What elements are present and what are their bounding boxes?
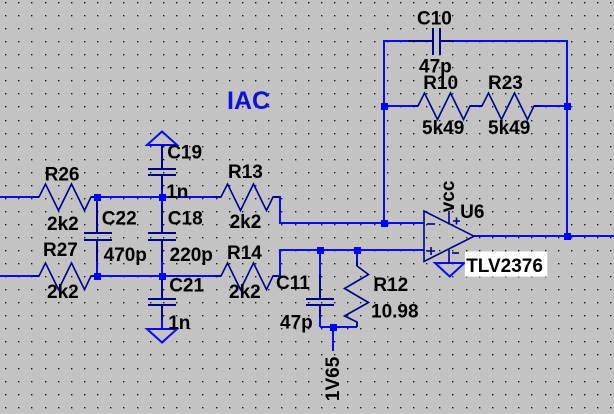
svg-text:C18: C18 [168,208,203,229]
svg-text:470p: 470p [104,245,147,266]
svg-text:IAC: IAC [227,87,270,115]
svg-text:10.98: 10.98 [371,302,419,323]
svg-text:R14: R14 [227,243,262,264]
svg-text:1n: 1n [166,182,188,203]
svg-text:2k2: 2k2 [47,282,79,303]
svg-text:5k49: 5k49 [422,118,464,139]
svg-text:C10: C10 [417,8,452,29]
svg-text:C22: C22 [102,208,137,229]
svg-text:TLV2376: TLV2376 [466,256,543,277]
svg-text:2k2: 2k2 [230,212,262,233]
svg-text:U6: U6 [460,202,484,223]
svg-text:C19: C19 [167,143,202,164]
svg-text:C11: C11 [276,273,310,294]
svg-text:R23: R23 [488,73,523,94]
svg-text:1V65: 1V65 [323,356,344,401]
svg-text:R13: R13 [228,162,263,183]
svg-text:R26: R26 [45,164,80,185]
svg-text:2k2: 2k2 [47,214,79,235]
svg-text:R10: R10 [423,73,458,94]
svg-text:R27: R27 [43,240,78,261]
svg-text:C21: C21 [169,276,204,297]
svg-text:5k49: 5k49 [488,118,530,139]
svg-text:R12: R12 [373,275,408,296]
svg-text:47p: 47p [280,313,313,334]
svg-text:vcc: vcc [438,180,459,212]
svg-text:220p: 220p [170,245,213,266]
svg-text:1n: 1n [168,313,190,334]
svg-text:2k2: 2k2 [229,282,261,303]
